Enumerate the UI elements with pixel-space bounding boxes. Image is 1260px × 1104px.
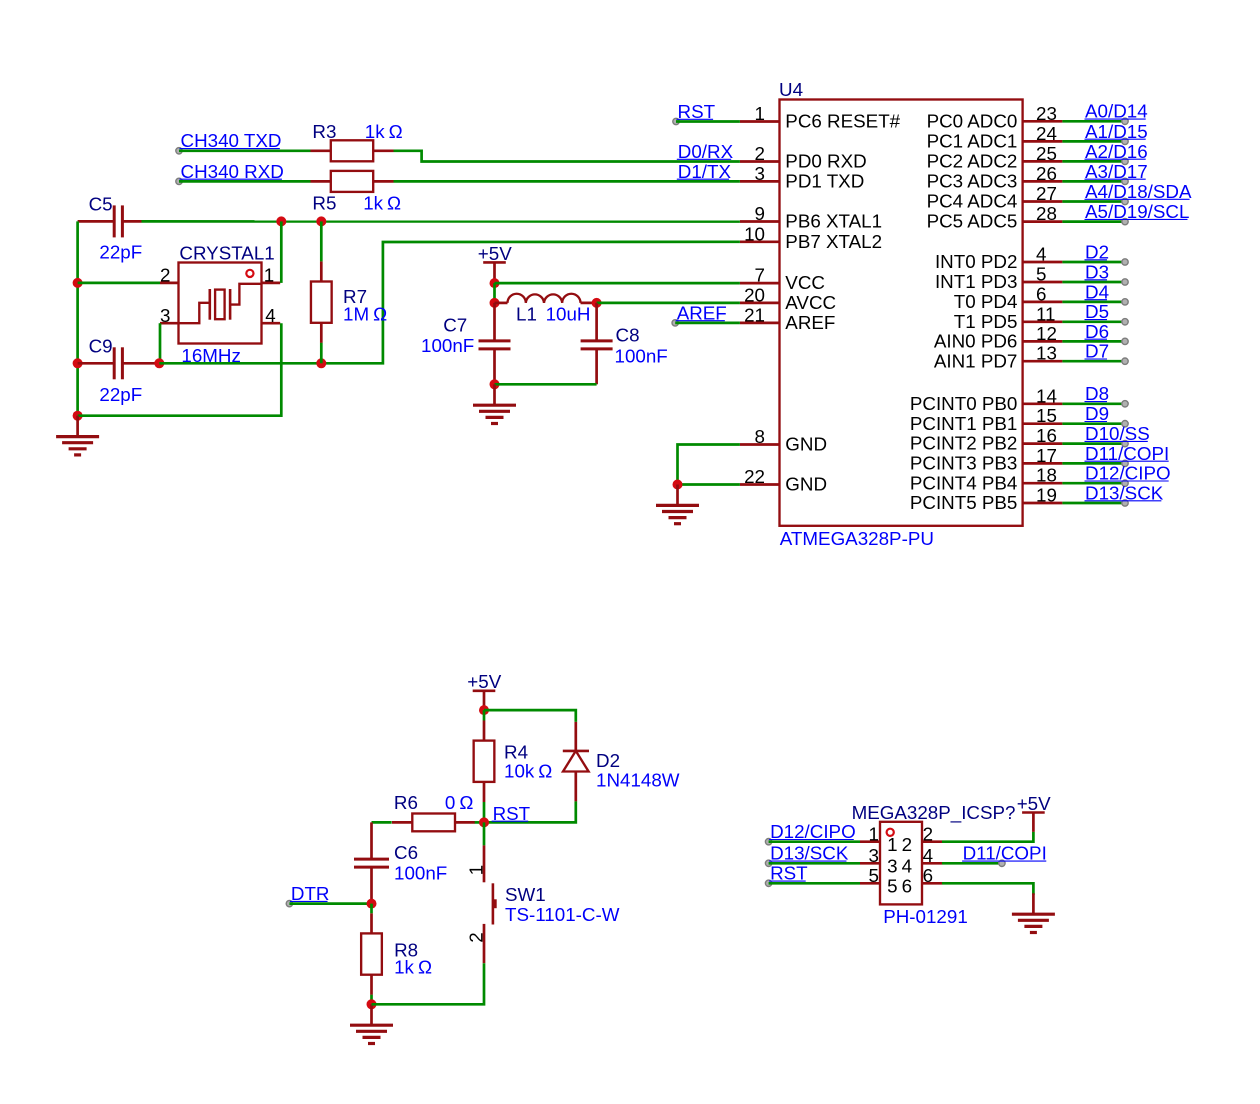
junction XTAL1/R7 top	[316, 216, 326, 226]
wire U4 pin22 GND	[678, 483, 740, 486]
svg-text:VCC: VCC	[785, 272, 825, 293]
svg-text:21: 21	[744, 304, 765, 325]
junction GND/pin22	[673, 480, 683, 490]
capacitor C9	[78, 347, 160, 379]
svg-text:RST: RST	[493, 803, 531, 824]
svg-text:T0 PD4: T0 PD4	[954, 291, 1018, 312]
svg-text:PC3 ADC3: PC3 ADC3	[927, 171, 1018, 192]
svg-text:1: 1	[264, 265, 274, 286]
ground (C7/C8)	[473, 384, 516, 423]
U4 pin 28 (PC5 ADC5)	[927, 203, 1063, 232]
net port A3/D17	[1085, 161, 1148, 185]
junction rail/C9	[73, 358, 83, 368]
net port AREF	[672, 302, 727, 326]
svg-text:PD0 RXD: PD0 RXD	[785, 151, 866, 172]
ground (reset)	[350, 1004, 393, 1043]
crystal pin number 1	[264, 265, 274, 286]
resistor R3	[311, 140, 394, 161]
wire R7 top to XTAL1	[320, 221, 323, 261]
svg-text:PCINT1 PB1: PCINT1 PB1	[910, 413, 1018, 434]
svg-text:100nF: 100nF	[421, 335, 474, 356]
ICSP inner pin numbers 1 2	[887, 834, 912, 855]
wire R4 bottom to RST node	[483, 802, 486, 822]
svg-text:PB6 XTAL1: PB6 XTAL1	[785, 211, 882, 232]
U4 pin 2 (PD0 RXD)	[740, 143, 867, 172]
U4 pin 10 (PB7 XTAL2)	[740, 223, 882, 252]
U4 pin 3 (PD1 TXD)	[740, 163, 864, 192]
value 16MHz (CRYSTAL1)	[181, 345, 241, 366]
svg-text:22: 22	[744, 466, 765, 487]
wire ICSP pin6 to gnd	[942, 883, 1033, 895]
svg-text:C9: C9	[89, 336, 113, 357]
capacitor C7	[479, 303, 511, 384]
svg-text:3: 3	[160, 305, 170, 326]
wire ICSP pin2 to +5V	[942, 832, 1033, 842]
net port A0/D14	[1085, 101, 1148, 125]
wire R6 right to RST node	[475, 821, 484, 824]
crystal pin number 3	[160, 305, 170, 326]
U4 pin 27 (PC4 ADC4)	[927, 183, 1063, 212]
svg-text:PC0 ADC0: PC0 ADC0	[927, 110, 1018, 131]
svg-text:PC4 ADC4: PC4 ADC4	[927, 191, 1018, 212]
U4 pin 21 (AREF)	[740, 304, 835, 333]
svg-text:3: 3	[887, 856, 897, 877]
svg-text:SW1: SW1	[505, 884, 546, 905]
wire crystal pin1 to XTAL1	[280, 221, 283, 283]
wire +5V node to D2 branch	[484, 710, 576, 722]
power +5V (AVCC filter)	[478, 243, 512, 283]
value 100nF (C8)	[615, 345, 668, 366]
wire U4 pin8 GND	[678, 445, 740, 485]
wire RST node down to SW1 pin1	[483, 822, 486, 845]
net port D11/COPI	[1085, 443, 1170, 467]
svg-text:PH-01291: PH-01291	[883, 906, 968, 927]
svg-text:3: 3	[869, 845, 879, 866]
svg-text:100nF: 100nF	[394, 863, 447, 884]
ref L1	[516, 303, 537, 324]
svg-text:13: 13	[1036, 343, 1057, 364]
svg-text:8: 8	[755, 426, 765, 447]
svg-text:C5: C5	[89, 194, 113, 215]
value 0Ω (R6)	[445, 792, 474, 813]
wire R3 to U4 pin2 (D0/RX)	[394, 151, 740, 162]
wire net A3/D17	[1062, 180, 1125, 183]
U4 pin 17 (PCINT3 PB3)	[910, 445, 1063, 474]
wire CH340_RXD to R5	[179, 180, 311, 183]
svg-text:PC2 ADC2: PC2 ADC2	[927, 151, 1018, 172]
wire R7 bottom to XTAL2 net	[320, 343, 323, 364]
U4 pin 6 (T0 PD4)	[954, 283, 1063, 312]
net label D1/TX	[677, 161, 732, 182]
wire net A1/D15	[1062, 140, 1125, 143]
svg-text:12: 12	[1036, 323, 1057, 344]
value PH-01291	[883, 906, 968, 927]
svg-text:PC5 ADC5: PC5 ADC5	[927, 211, 1018, 232]
svg-text:20: 20	[744, 284, 765, 305]
ICSP pin 4 stub	[922, 845, 942, 866]
svg-text:15: 15	[1036, 405, 1057, 426]
svg-text:22pF: 22pF	[99, 242, 142, 263]
svg-text:19: 19	[1036, 485, 1057, 506]
diode D2	[563, 722, 589, 802]
svg-text:1kΩ: 1kΩ	[365, 121, 403, 142]
svg-text:16: 16	[1036, 425, 1057, 446]
svg-text:9: 9	[755, 203, 765, 224]
value 10kΩ (R4)	[504, 761, 552, 782]
value 22pF (C5)	[99, 242, 142, 263]
junction XTAL1/crystal pin1	[276, 216, 286, 226]
capacitor C5	[78, 205, 142, 237]
svg-text:4: 4	[1036, 244, 1046, 265]
ICSP inner pin numbers 3 4	[887, 856, 912, 877]
U4 pin 23 (PC0 ADC0)	[927, 103, 1063, 132]
junction C7 bottom/gnd	[490, 379, 500, 389]
svg-text:AIN0 PD6: AIN0 PD6	[934, 331, 1018, 352]
svg-text:1kΩ: 1kΩ	[394, 957, 432, 978]
junction rail/bottom wire	[73, 411, 83, 421]
wire +5V down to AVCC node	[493, 283, 496, 303]
svg-text:PCINT5 PB5: PCINT5 PB5	[910, 492, 1018, 513]
net port D9	[1085, 403, 1129, 427]
capacitor C8	[581, 303, 613, 384]
ground (U4)	[656, 485, 699, 524]
svg-text:PD1 TXD: PD1 TXD	[785, 171, 864, 192]
svg-text:AVCC: AVCC	[785, 292, 836, 313]
wire ICSP pin4 (D11/COPI)	[942, 862, 1002, 865]
ref MEGA328P_ICSP?	[852, 802, 1016, 824]
svg-text:PB7 XTAL2: PB7 XTAL2	[785, 231, 882, 252]
svg-text:ATMEGA328P-PU: ATMEGA328P-PU	[780, 528, 934, 549]
wire RST to U4 pin1	[676, 120, 740, 123]
svg-text:+5V: +5V	[1017, 793, 1051, 814]
ref D2	[596, 750, 620, 771]
svg-text:25: 25	[1036, 143, 1057, 164]
svg-text:PCINT2 PB2: PCINT2 PB2	[910, 433, 1018, 454]
U4 pin 26 (PC3 ADC3)	[927, 163, 1063, 192]
svg-text:D2: D2	[596, 750, 620, 771]
U4 pin 24 (PC1 ADC1)	[927, 123, 1063, 152]
svg-text:6: 6	[902, 876, 912, 897]
net port D11/COPI	[962, 843, 1047, 867]
U4 pin 11 (T1 PD5)	[954, 303, 1063, 332]
svg-text:2: 2	[755, 143, 765, 164]
ground (left rail)	[56, 416, 99, 455]
svg-text:22pF: 22pF	[99, 384, 142, 405]
wire left rail (gnd net)	[76, 221, 79, 415]
wire net D2	[1062, 261, 1125, 264]
junction RST node	[479, 817, 489, 827]
connector MEGA328P_ICSP body	[880, 822, 922, 905]
svg-text:18: 18	[1036, 465, 1057, 486]
svg-text:C6: C6	[394, 842, 418, 863]
wire net D7	[1062, 360, 1125, 363]
junction L1/C8/AVCC wire	[592, 298, 602, 308]
ref U4	[779, 79, 803, 100]
U4 pin 9 (PB6 XTAL1)	[740, 203, 882, 232]
svg-text:AIN1 PD7: AIN1 PD7	[934, 350, 1018, 371]
svg-text:D4: D4	[1085, 281, 1109, 302]
svg-text:1: 1	[465, 865, 486, 875]
ref R7	[343, 286, 367, 307]
svg-text:R5: R5	[312, 193, 336, 214]
ICSP inner pin numbers 5 6	[887, 876, 912, 897]
ground (ICSP)	[1012, 893, 1055, 932]
net port D4	[1085, 281, 1129, 305]
wire net D11/COPI	[1062, 462, 1125, 465]
U4 pin 12 (AIN0 PD6)	[934, 323, 1063, 352]
ref CRYSTAL1	[179, 243, 274, 264]
wire D12/CIPO to ICSP pin1	[769, 840, 860, 843]
ICSP pin 6 stub	[922, 865, 942, 886]
net port D7	[1085, 341, 1129, 365]
wire R5 to U4 pin3 (D1/TX)	[394, 180, 740, 183]
U4 pin 14 (PCINT0 PB0)	[910, 385, 1063, 414]
resistor R8	[361, 904, 382, 995]
svg-text:AREF: AREF	[785, 312, 835, 333]
wire net A4/D18/SDA	[1062, 200, 1125, 203]
net port A4/D18/SDA	[1085, 181, 1192, 205]
resistor R7	[311, 261, 332, 343]
svg-text:5: 5	[1036, 264, 1046, 285]
wire XTAL1 net (C5 to U4 pin9)	[142, 220, 740, 223]
svg-text:6: 6	[923, 865, 933, 886]
crystal CRYSTAL1	[160, 263, 280, 344]
svg-text:24: 24	[1036, 123, 1057, 144]
junction AVCC/L1/C7	[490, 298, 500, 308]
junction rail/crystal pin2	[73, 278, 83, 288]
value 1kΩ (R5)	[363, 193, 401, 214]
svg-text:+5V: +5V	[467, 671, 501, 692]
ref R6	[394, 792, 418, 813]
net port D10/SS	[1085, 423, 1150, 447]
svg-text:5: 5	[869, 865, 879, 886]
net port D5	[1085, 301, 1129, 325]
svg-text:0Ω: 0Ω	[445, 792, 474, 813]
svg-text:2: 2	[160, 265, 170, 286]
svg-text:28: 28	[1036, 203, 1057, 224]
wire net D12/CIPO	[1062, 482, 1125, 485]
svg-text:R4: R4	[504, 742, 528, 763]
inductor L1	[495, 294, 597, 303]
svg-text:6: 6	[1036, 283, 1046, 304]
resistor R5	[311, 171, 394, 192]
net port D13/SCK (ICSP pin3)	[765, 843, 848, 867]
wire net A5/D19/SCL	[1062, 220, 1125, 223]
wire D13/SCK to ICSP pin3	[769, 862, 860, 865]
svg-text:L1: L1	[516, 303, 537, 324]
svg-text:1kΩ: 1kΩ	[363, 193, 401, 214]
value ATMEGA328P-PU	[780, 528, 934, 549]
svg-text:INT0 PD2: INT0 PD2	[935, 251, 1017, 272]
junction DTR/C6/R8	[367, 899, 377, 909]
power +5V (reset pull-up)	[467, 671, 501, 710]
U4 pin 19 (PCINT5 PB5)	[910, 485, 1063, 514]
junction +5V/VCC	[490, 278, 500, 288]
svg-text:2: 2	[923, 823, 933, 844]
svg-text:26: 26	[1036, 163, 1057, 184]
U4 pin 13 (AIN1 PD7)	[934, 343, 1063, 372]
wire net D13/SCK	[1062, 502, 1125, 505]
net port D3	[1085, 261, 1129, 285]
ref C8	[616, 325, 640, 346]
U4 pin 1 (PC6 RESET#)	[740, 103, 901, 132]
svg-text:10: 10	[744, 223, 765, 244]
net port CH340 RXD	[176, 161, 284, 185]
SW1 pin number 1	[465, 865, 486, 875]
wire DTR to C6/R8 node	[289, 902, 371, 905]
svg-text:1: 1	[887, 834, 897, 855]
net port A5/D19/SCL	[1085, 201, 1190, 225]
svg-text:U4: U4	[779, 79, 803, 100]
U4 pin 8 (GND)	[740, 426, 827, 455]
value 22pF (C9)	[99, 384, 142, 405]
U4 pin 22 (GND)	[740, 466, 827, 495]
U4 pin 4 (INT0 PD2)	[935, 244, 1062, 273]
ref R4	[504, 742, 528, 763]
net label RST (node)	[492, 803, 531, 824]
wire net A0/D14	[1062, 120, 1125, 123]
svg-text:T1 PD5: T1 PD5	[954, 311, 1018, 332]
svg-text:DTR: DTR	[291, 883, 330, 904]
net port RST (U4 pin1)	[673, 101, 716, 125]
svg-text:1: 1	[755, 103, 765, 124]
junction +5V/R4/D2	[479, 705, 489, 715]
svg-text:+5V: +5V	[478, 243, 512, 264]
svg-text:23: 23	[1036, 103, 1057, 124]
net port A2/D16	[1085, 141, 1148, 165]
wire C7 bottom to C8 bottom	[495, 383, 597, 386]
U4 pin 7 (VCC)	[740, 265, 825, 294]
wire D2 anode to RST node	[484, 801, 576, 822]
svg-text:100nF: 100nF	[615, 345, 668, 366]
wire net D10/SS	[1062, 442, 1125, 445]
resistor R4	[474, 710, 495, 802]
wire AREF to U4 pin21	[675, 322, 740, 325]
ref R3	[312, 121, 336, 142]
svg-text:4: 4	[265, 305, 275, 326]
switch SW1	[484, 845, 497, 963]
ref R5	[312, 193, 336, 214]
svg-text:TS-1101-C-W: TS-1101-C-W	[505, 904, 620, 925]
power +5V (ICSP)	[1017, 793, 1051, 832]
wire SW1 pin2 to gnd wire	[372, 963, 485, 1004]
svg-text:10uH: 10uH	[546, 303, 591, 324]
net port D6	[1085, 321, 1129, 345]
svg-text:14: 14	[1036, 385, 1057, 406]
svg-text:PC1 ADC1: PC1 ADC1	[927, 131, 1018, 152]
ref C6	[394, 842, 418, 863]
ICSP pin 3 stub	[860, 845, 880, 866]
wire CH340_TXD to R3	[179, 149, 311, 152]
wire net D5	[1062, 320, 1125, 323]
svg-text:7: 7	[755, 265, 765, 286]
IC U4 body	[780, 100, 1023, 526]
svg-text:INT1 PD3: INT1 PD3	[935, 271, 1017, 292]
value TS-1101-C-W (SW1)	[505, 904, 620, 925]
wire crystal pin3 down to C9 net	[159, 323, 162, 363]
svg-text:PCINT4 PB4: PCINT4 PB4	[910, 472, 1018, 493]
svg-text:1MΩ: 1MΩ	[343, 303, 387, 324]
svg-text:D12/CIPO: D12/CIPO	[770, 821, 856, 842]
net port D2	[1085, 241, 1129, 265]
value 100nF (C7)	[421, 335, 474, 356]
value 1MΩ (R7)	[343, 303, 387, 324]
wire net D4	[1062, 301, 1125, 304]
wire XTAL2 net (C9 row to U4 pin10)	[159, 242, 740, 363]
junction R7 bottom	[316, 358, 326, 368]
svg-text:R3: R3	[312, 121, 336, 142]
net port D12/CIPO (ICSP pin1)	[765, 821, 855, 845]
value 1kΩ (R3)	[365, 121, 403, 142]
wire AVCC to U4 pin20	[597, 302, 740, 305]
wire crystal pin2 to rail	[78, 282, 160, 285]
ref SW1	[505, 884, 546, 905]
svg-text:PCINT3 PB3: PCINT3 PB3	[910, 453, 1018, 474]
net label D0/RX	[677, 141, 734, 162]
wire RST to ICSP pin5	[769, 882, 860, 885]
net port DTR	[286, 883, 329, 907]
svg-text:5: 5	[887, 876, 897, 897]
U4 pin 15 (PCINT1 PB1)	[910, 405, 1063, 434]
net port CH340 TXD	[176, 130, 282, 154]
svg-text:1N4148W: 1N4148W	[596, 770, 680, 791]
wire net D9	[1062, 422, 1125, 425]
value 10uH (L1)	[546, 303, 591, 324]
wire net D3	[1062, 281, 1125, 284]
svg-text:C8: C8	[616, 325, 640, 346]
wire net A2/D16	[1062, 160, 1125, 163]
ref C9	[89, 336, 113, 357]
wire crystal pin4 down to bottom wire	[78, 323, 282, 416]
svg-text:3: 3	[755, 163, 765, 184]
svg-text:11: 11	[1036, 303, 1056, 324]
value 100nF (C6)	[394, 863, 447, 884]
svg-text:GND: GND	[785, 434, 827, 455]
wire R6 left to C6 branch	[372, 821, 392, 824]
value 1kΩ (R8)	[394, 957, 432, 978]
svg-text:PC6 RESET#: PC6 RESET#	[785, 111, 900, 132]
junction C9/crystal pin3	[154, 358, 164, 368]
capacitor C6	[354, 822, 389, 903]
wire net D8	[1062, 402, 1125, 405]
svg-text:AREF: AREF	[677, 302, 727, 323]
ICSP pin 5 stub	[860, 865, 880, 886]
SW1 pin number 2	[465, 932, 486, 942]
svg-text:C7: C7	[443, 315, 467, 336]
crystal pin number 2	[160, 265, 170, 286]
net port D13/SCK	[1085, 482, 1164, 506]
wire net D6	[1062, 340, 1125, 343]
svg-text:2: 2	[465, 932, 486, 942]
U4 pin 5 (INT1 PD3)	[935, 264, 1062, 293]
U4 pin 20 (AVCC)	[740, 284, 836, 313]
svg-text:MEGA328P_ICSP?: MEGA328P_ICSP?	[852, 802, 1016, 824]
svg-text:10kΩ: 10kΩ	[504, 761, 552, 782]
svg-text:1: 1	[869, 823, 879, 844]
svg-text:D11/COPI: D11/COPI	[1085, 443, 1169, 464]
svg-text:CRYSTAL1: CRYSTAL1	[179, 243, 274, 264]
wire R8 bottom to gnd node	[370, 995, 373, 1005]
svg-text:4: 4	[902, 856, 912, 877]
ref R8	[394, 940, 418, 961]
ref C5	[89, 194, 113, 215]
svg-text:R6: R6	[394, 792, 418, 813]
U4 pin 25 (PC2 ADC2)	[927, 143, 1063, 172]
svg-text:4: 4	[923, 845, 933, 866]
svg-text:GND: GND	[785, 474, 827, 495]
net port RST (ICSP pin5)	[765, 863, 808, 887]
resistor R6	[392, 814, 475, 832]
